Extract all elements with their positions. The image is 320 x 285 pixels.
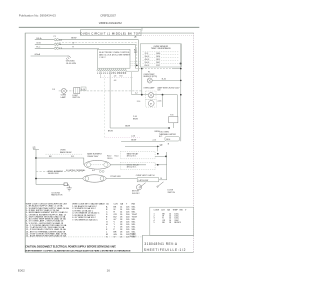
svg-text:FAN MOTOR: FAN MOTOR xyxy=(51,194,63,197)
svg-text:BK/W: BK/W xyxy=(125,125,130,127)
svg-text:2047: 2047 xyxy=(156,62,160,64)
svg-text:BK/W: BK/W xyxy=(133,118,138,120)
pin row tail wire xyxy=(126,70,139,72)
svg-text:(EOC) N.O.: (EOC) N.O. xyxy=(127,167,137,169)
legend table right multi-column xyxy=(106,202,138,238)
svg-text:W: W xyxy=(114,236,116,238)
svg-text:WIRING DIAGRAM: WIRING DIAGRAM xyxy=(99,21,122,25)
svg-text:7. GN GREEN 16 GA 105 C: 7. GN GREEN 16 GA 105 C xyxy=(72,218,98,221)
legend table left xyxy=(26,204,69,238)
wire y94.7 xyxy=(132,94,178,96)
pin labels xyxy=(97,73,126,74)
svg-text:N.C.: N.C. xyxy=(159,136,163,138)
terminal block dashed spine xyxy=(54,38,56,49)
dashed net y77.7 xyxy=(100,77,133,79)
svg-text:OVEN LAMP: OVEN LAMP xyxy=(143,86,155,89)
svg-text:4-8: 4-8 xyxy=(114,80,117,82)
svg-text:LATCH SW: LATCH SW xyxy=(139,179,149,182)
latch motor circle xyxy=(136,185,141,190)
bus crossing dashes right of EOC xyxy=(131,61,142,65)
dashed branch wire xyxy=(59,43,137,66)
pin net labels xyxy=(113,73,126,83)
wire into EOC xyxy=(59,48,99,50)
dashed track right of title xyxy=(141,35,194,37)
svg-text:SWITCH: SWITCH xyxy=(168,192,176,194)
bus down from EOC xyxy=(141,69,143,95)
relay bottom stub xyxy=(172,123,174,128)
svg-text:TEMP: TEMP xyxy=(173,209,179,211)
latch switch contact xyxy=(140,183,146,188)
svg-text:P1: P1 xyxy=(54,36,56,38)
svg-text:BK-8: BK-8 xyxy=(118,73,122,75)
broil element xyxy=(83,175,106,182)
bake element xyxy=(84,161,110,170)
svg-text:BK-A: BK-A xyxy=(36,37,42,40)
page bottom border xyxy=(25,251,194,253)
svg-text:16: 16 xyxy=(107,268,111,272)
chassis ground xyxy=(67,186,72,191)
conv fan dashed box xyxy=(146,99,157,107)
svg-text:CLR: CLR xyxy=(114,203,119,205)
relay outputs to N bus xyxy=(155,155,167,157)
legend table mid xyxy=(72,203,105,222)
svg-text:NOTE 2: NOTE 2 xyxy=(130,236,137,238)
wire after bake xyxy=(110,164,146,166)
svg-text:4-16: 4-16 xyxy=(81,89,85,91)
svg-text:BK/W 6: BK/W 6 xyxy=(174,222,180,224)
svg-text:(EOC) N.O.: (EOC) N.O. xyxy=(127,156,137,158)
terminal L2 xyxy=(54,47,56,49)
ground symbol xyxy=(66,56,71,60)
dashed wire to sensor bus xyxy=(136,68,172,70)
oven sensor table box xyxy=(140,44,181,67)
svg-text:CD: CD xyxy=(106,203,109,205)
N bus xyxy=(166,152,168,180)
notes column xyxy=(130,234,137,238)
svg-text:E002: E002 xyxy=(18,268,25,272)
faint pin drop xyxy=(104,72,106,138)
page top border xyxy=(19,26,200,28)
title block xyxy=(141,235,143,252)
fan connector xyxy=(64,183,67,186)
svg-text:CFEF312GS7: CFEF312GS7 xyxy=(100,14,116,18)
relay box right xyxy=(169,117,178,123)
EOC box xyxy=(98,49,131,68)
svg-text:318048941 REV:A: 318048941 REV:A xyxy=(144,242,177,246)
svg-text:R-8: R-8 xyxy=(120,75,123,77)
convection fan motor xyxy=(148,101,154,107)
svg-text:2237: 2237 xyxy=(156,65,160,67)
schematic box right border xyxy=(193,33,195,252)
svg-text:1654: 1654 xyxy=(156,56,160,58)
schematic box left border xyxy=(24,33,26,252)
dashed row wire xyxy=(36,171,83,173)
schematic bottom divider xyxy=(25,236,142,238)
relay dashed box 2 xyxy=(120,162,155,169)
title bar box xyxy=(81,30,142,36)
dotted magenta line xyxy=(106,137,140,139)
right bus from sensor table xyxy=(180,44,182,141)
door switch xyxy=(158,182,164,187)
svg-text:550 F: 550 F xyxy=(145,62,151,64)
svg-text:15 - BU/W SENSOR RETURN LEAD: 15 - BU/W SENSOR RETURN LEAD 18 GA xyxy=(26,235,67,238)
svg-text:1852: 1852 xyxy=(156,59,160,61)
svg-text:R-10: R-10 xyxy=(115,156,119,158)
wire xyxy=(59,40,139,71)
L2 wire xyxy=(125,145,160,147)
svg-text:AVERTISSEMENT: COUPER L'ALIMEN: AVERTISSEMENT: COUPER L'ALIMENTATION ELE… xyxy=(25,249,131,252)
svg-text:4-2: 4-2 xyxy=(135,92,138,94)
junction dot xyxy=(141,68,143,70)
pin drop left xyxy=(99,71,101,78)
svg-text:2-16: 2-16 xyxy=(153,140,157,142)
bottom right spec box xyxy=(150,207,194,235)
schematic box top border xyxy=(25,32,194,34)
svg-text:BK/W: BK/W xyxy=(131,139,136,141)
svg-text:CLR: CLR xyxy=(161,209,165,211)
svg-text:DLB RLY: DLB RLY xyxy=(132,193,140,195)
bake wire xyxy=(36,158,84,165)
svg-text:LAMP: LAMP xyxy=(61,96,67,99)
junction dot xyxy=(136,65,138,67)
lamp feed corner xyxy=(141,91,143,95)
L1 bus xyxy=(35,150,37,185)
svg-text:5: 5 xyxy=(154,222,155,224)
svg-text:2750W 240V: 2750W 240V xyxy=(110,176,121,178)
wire xyxy=(59,44,136,68)
svg-text:SHEET/FEUILLE:1/2: SHEET/FEUILLE:1/2 xyxy=(144,248,187,252)
svg-text:OVEN VENT / LATCH: OVEN VENT / LATCH xyxy=(136,174,155,177)
small box on wire xyxy=(165,137,180,141)
svg-text:M: M xyxy=(150,103,152,105)
svg-text:B-16: B-16 xyxy=(162,79,166,81)
oven lamp 2 xyxy=(148,93,153,98)
svg-text:P-8: P-8 xyxy=(170,114,173,116)
svg-text:TEMP / RESISTANCE: TEMP / RESISTANCE xyxy=(151,47,171,50)
svg-text:Publication No: 5995434-03: Publication No: 5995434-03 xyxy=(19,14,56,18)
svg-text:OVEN CIRCUIT (1 MIDDLE) BK TOP: OVEN CIRCUIT (1 MIDDLE) BK TOP xyxy=(80,32,141,36)
cooling fan wire xyxy=(36,184,64,186)
latch row to N bus xyxy=(159,179,167,181)
latch box xyxy=(137,178,159,182)
svg-text:BK/W: BK/W xyxy=(108,131,113,133)
svg-text:2-16: 2-16 xyxy=(137,101,141,103)
relay dashed box 1 xyxy=(120,151,155,158)
svg-text:CAUTION: DISCONNECT ELECTRICAL: CAUTION: DISCONNECT ELECTRICAL POWER SUP… xyxy=(25,246,116,249)
svg-text:BK-4: BK-4 xyxy=(166,139,170,141)
relay dashed xyxy=(46,153,84,155)
pin stubs xyxy=(98,68,126,69)
sensor wire xyxy=(152,79,181,81)
svg-text:BK/W: BK/W xyxy=(71,38,76,40)
svg-text:3400W 240V: 3400W 240V xyxy=(48,173,60,175)
broil wires xyxy=(36,178,83,180)
vertical from lamp wire xyxy=(162,95,164,107)
oven lamp 2 dashed box xyxy=(146,91,156,99)
wire routing from EOC pin down/right xyxy=(110,71,169,128)
svg-text:P2: P2 xyxy=(113,73,115,75)
svg-text:CODE: CODE xyxy=(154,209,160,211)
oven light switch box xyxy=(74,88,80,94)
svg-text:Y-8: Y-8 xyxy=(52,89,55,91)
svg-text:450 F: 450 F xyxy=(145,59,151,61)
svg-text:2-16: 2-16 xyxy=(158,100,162,102)
vertical to relay xyxy=(176,95,178,117)
svg-text:18: 18 xyxy=(169,222,171,224)
svg-text:OR-10: OR-10 xyxy=(107,158,112,160)
svg-text:25W 120V: 25W 120V xyxy=(171,87,181,89)
svg-text:BAKE RELAY: BAKE RELAY xyxy=(60,151,72,154)
svg-text:350 F: 350 F xyxy=(145,56,151,58)
svg-text:2-16: 2-16 xyxy=(131,136,135,138)
wire y141.3 xyxy=(121,140,165,142)
sensor node dot xyxy=(180,63,182,65)
svg-text:2800W 240V: 2800W 240V xyxy=(87,156,99,158)
top tick xyxy=(141,27,143,30)
svg-text:W-8: W-8 xyxy=(123,73,126,75)
oven lamp xyxy=(61,88,66,93)
svg-text:4-4: 4-4 xyxy=(92,170,95,172)
oven temp sensor RTD xyxy=(147,78,152,83)
EOC connector pins xyxy=(97,70,127,72)
svg-text:1080: 1080 xyxy=(156,53,160,55)
svg-text:18-16 GRN: 18-16 GRN xyxy=(66,63,77,65)
svg-text:SWITCH: SWITCH xyxy=(72,97,80,99)
lamp connector xyxy=(81,87,86,91)
terminal L1 xyxy=(54,39,56,41)
svg-text:G-8: G-8 xyxy=(157,90,160,92)
terminal N xyxy=(54,43,56,45)
svg-text:2-8: 2-8 xyxy=(114,75,117,77)
svg-text:2 OF 2: 2 OF 2 xyxy=(99,57,106,59)
svg-text:650 F: 650 F xyxy=(145,65,151,67)
svg-text:W-2: W-2 xyxy=(134,52,137,54)
oven lamp left wire xyxy=(59,90,142,92)
